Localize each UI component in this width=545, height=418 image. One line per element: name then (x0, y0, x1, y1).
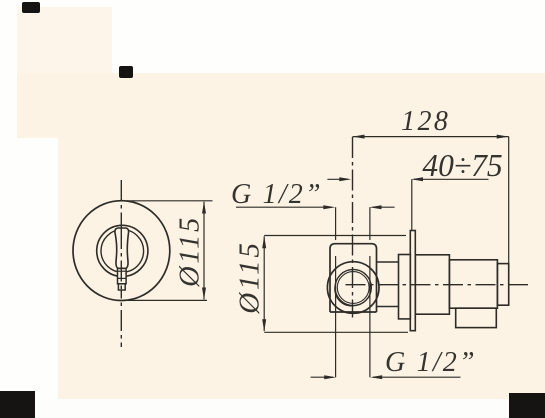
valve body rounded square (330, 244, 377, 312)
arrow 128 right (497, 135, 509, 139)
extension line right port edge (369, 207, 371, 377)
hole mark B (119, 66, 133, 78)
dim top G12 right tail (373, 206, 395, 208)
handle shank line 2 (118, 277, 127, 279)
arrow bottom G12 left-pointing (370, 375, 382, 379)
handle ring outer circle (97, 225, 148, 276)
arrow front dim down (202, 288, 206, 300)
valve seat ring inner (337, 272, 369, 304)
dim front diameter line (203, 202, 205, 300)
arrow 40-75 right-pointing at centerline (339, 177, 351, 181)
dim front diameter bottom extension line (125, 299, 207, 301)
handle shank tip (118, 284, 125, 290)
front centerline overdraw (120, 228, 122, 290)
dim bottom G12 underline (373, 376, 461, 378)
bottom outlet box (456, 308, 497, 327)
svg-text:40÷75: 40÷75 (422, 148, 502, 183)
background white left sliver (0, 0, 17, 418)
hole mark D (509, 393, 545, 418)
arrow 40-75 left-pointing at plate (411, 177, 423, 181)
flange box (399, 255, 411, 319)
background white left column (0, 138, 58, 418)
background bottom white band (0, 399, 545, 418)
dim bottom G12 left tail (311, 376, 333, 378)
handle shank (118, 268, 127, 283)
hole mark C (0, 391, 35, 418)
dim 128 right extension (508, 137, 510, 264)
neck bottom edge (377, 306, 399, 308)
wall plate section (410, 231, 415, 331)
handle lever knob (115, 228, 129, 268)
dim 40-75 underline (414, 178, 489, 180)
svg-text:Ø115: Ø115 (234, 240, 266, 315)
arrow top G12 right-pointing (323, 205, 335, 209)
arrow side dim down (262, 319, 266, 331)
dim 128 line (353, 136, 509, 138)
background cream block top-left (16, 7, 112, 73)
neck top edge (377, 261, 399, 263)
svg-text:128: 128 (401, 106, 450, 137)
svg-text:Ø115: Ø115 (175, 215, 206, 288)
valve ball arc (335, 284, 359, 306)
handle ring inner circle (101, 230, 144, 273)
valve horizontal centerline (346, 284, 530, 286)
dim 40-75 plate extension (411, 179, 413, 230)
arrow front dim up (202, 201, 206, 213)
background white top band (0, 0, 545, 73)
valve body bottom edge (330, 311, 377, 313)
node front-view centerline (120, 180, 122, 347)
dim side diameter line (263, 236, 265, 331)
rear big box (415, 255, 449, 314)
arrow top G12 left-pointing (370, 205, 382, 209)
leader top G12 underline (236, 206, 332, 208)
dim side diameter top extension (264, 235, 406, 237)
valve cartridge outer circle (327, 262, 379, 314)
dim side diameter bottom extension (264, 331, 408, 333)
arrow bottom G12 right-pointing (324, 375, 336, 379)
svg-text:G 1/2”: G 1/2” (231, 179, 323, 210)
arrow side dim up (262, 236, 266, 248)
extension line left port edge (335, 207, 337, 377)
valve seat ring outer (335, 269, 371, 305)
middle cylinder (449, 260, 497, 308)
handle shank line 1 (118, 270, 127, 272)
escutcheon plate front circle (73, 201, 170, 301)
end cap (497, 264, 508, 306)
dim front diameter top extension line (127, 200, 213, 202)
hole mark A (22, 2, 40, 13)
valve vertical centerline (352, 137, 354, 318)
svg-text:G 1/2”: G 1/2” (385, 347, 477, 378)
dim 40-75 line left tail (327, 178, 348, 180)
arrow 128 left (353, 135, 365, 139)
